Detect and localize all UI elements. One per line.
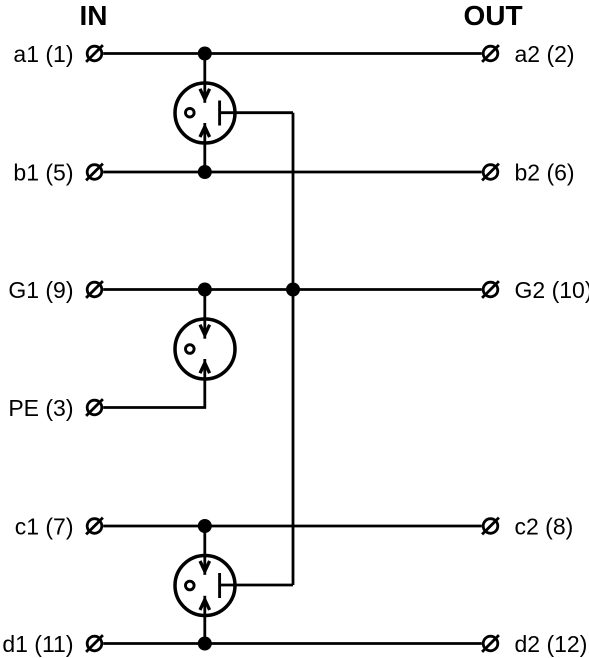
junction row a: [198, 47, 212, 61]
F2 electrode dot: [186, 345, 195, 354]
wire row a (a1 to a2): [103, 52, 482, 55]
F1 electrode bar: [218, 101, 221, 126]
arrester F3 (c-d gas discharge tube): [175, 556, 235, 616]
terminal c2: [482, 518, 499, 535]
terminal a1: [86, 45, 103, 62]
junction row b: [198, 165, 212, 179]
svg-text:c2 (8): c2 (8): [515, 514, 574, 540]
terminal b1: [86, 164, 103, 181]
svg-text:OUT: OUT: [463, 0, 522, 31]
svg-text:b2 (6): b2 (6): [515, 160, 575, 186]
wire F1 down to b row: [203, 123, 206, 172]
F1 top arrow: [200, 89, 210, 99]
wire F1 bar to bus: [220, 111, 293, 114]
junction row c: [198, 519, 212, 533]
junction row d: [198, 637, 212, 651]
wire row d (d1 to d2): [103, 642, 482, 645]
terminal d2: [482, 635, 499, 652]
svg-text:c1 (7): c1 (7): [15, 514, 74, 540]
F3 electrode dot: [186, 581, 195, 590]
F3 bottom arrow: [200, 600, 210, 610]
F2 bottom arrow: [200, 363, 210, 373]
F2 top arrow: [200, 325, 210, 335]
svg-text:PE (3): PE (3): [8, 395, 73, 421]
wire F3 down to d row: [203, 596, 206, 644]
terminal G2: [482, 281, 499, 298]
terminal PE: [86, 399, 103, 416]
svg-text:b1 (5): b1 (5): [13, 160, 73, 186]
terminal c1: [86, 518, 103, 535]
wire F3 bar to bus: [220, 584, 293, 587]
wire G row down into F2: [203, 290, 206, 339]
svg-text:G2 (10): G2 (10): [515, 277, 589, 303]
F1 electrode dot: [186, 108, 195, 117]
F3 electrode bar: [218, 573, 221, 598]
svg-text:G1 (9): G1 (9): [8, 277, 73, 303]
wire row b (b1 to b2): [103, 171, 482, 174]
svg-text:a1 (1): a1 (1): [13, 41, 73, 67]
wire c row down into F3: [203, 526, 206, 575]
junction row G at arrester column: [198, 283, 212, 297]
wire bus vertical: [292, 113, 295, 585]
terminal d1: [86, 635, 103, 652]
terminal G1: [86, 281, 103, 298]
svg-text:a2 (2): a2 (2): [515, 41, 575, 67]
svg-text:d1 (11): d1 (11): [2, 631, 73, 657]
junction row G at bus: [286, 283, 300, 297]
svg-text:d2 (12): d2 (12): [515, 631, 588, 657]
F3 top arrow: [200, 561, 210, 571]
arrester F1 (a-b gas discharge tube): [175, 83, 235, 143]
arrester F2 (G-PE gas discharge tube): [175, 319, 235, 379]
wire a row down into F1: [203, 54, 206, 103]
svg-text:IN: IN: [80, 0, 108, 31]
wire PE horizontal: [103, 359, 205, 408]
F1 bottom arrow: [200, 127, 210, 137]
terminal a2: [482, 45, 499, 62]
terminal b2: [482, 164, 499, 181]
wire row c (c1 to c2): [103, 525, 482, 528]
wire row G (G1 to G2): [103, 288, 482, 291]
